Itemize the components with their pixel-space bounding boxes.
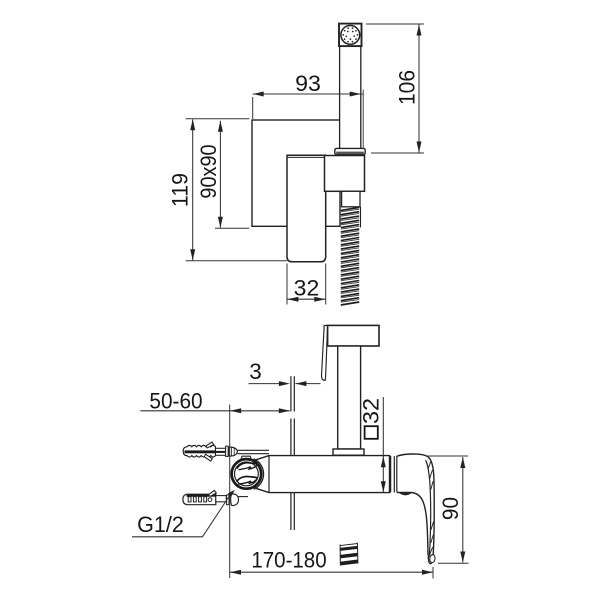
dim 106 [366, 24, 424, 153]
wall plate side view [291, 376, 294, 530]
hose break symbol [340, 543, 358, 566]
svg-text:50-60: 50-60 [149, 389, 202, 414]
inlet pipe stubs [238, 450, 270, 496]
svg-text:G1/2: G1/2 [137, 512, 184, 537]
dim 93 [253, 71, 364, 148]
holder flange front [335, 148, 365, 154]
svg-text:32: 32 [358, 398, 383, 424]
spray holes [342, 27, 358, 42]
G1/2 label [132, 490, 235, 537]
shower handle front [340, 40, 361, 150]
dim 119 [168, 119, 288, 261]
dim 50-60 [140, 389, 289, 414]
svg-text:106: 106 [395, 70, 420, 105]
shower hose coil [341, 207, 359, 305]
spray face circle [341, 26, 360, 45]
sprayer head side [328, 325, 379, 346]
dim 3 [249, 359, 321, 386]
mixer body side [256, 456, 390, 493]
wall anchor top [183, 442, 225, 461]
svg-text:119: 119 [168, 173, 193, 207]
outlet bump [399, 493, 412, 495]
body end cap [390, 456, 394, 493]
svg-text:90: 90 [438, 497, 463, 520]
svg-text:32: 32 [294, 276, 320, 301]
screw bottom [227, 494, 239, 506]
cartridge circle [232, 459, 264, 489]
wall line extension [229, 405, 231, 579]
spray head square [339, 24, 362, 46]
dim 90x90 [196, 121, 250, 228]
dim 32 front [287, 264, 326, 305]
sprayer handle side [338, 346, 361, 449]
svg-text:93: 93 [295, 71, 321, 96]
sprayer nozzle side [321, 325, 327, 380]
svg-text:90x90: 90x90 [196, 144, 221, 198]
dim 90 [428, 456, 469, 563]
holder block front [325, 156, 365, 192]
cartridge tab [241, 456, 251, 459]
mixer lever front [287, 155, 326, 262]
hose connector [342, 191, 361, 227]
lever side [397, 454, 436, 564]
wall anchor bottom [183, 490, 226, 504]
holder flange side [333, 449, 364, 455]
svg-text:3: 3 [249, 359, 262, 384]
screw top [226, 446, 238, 456]
wall plate front view [252, 120, 340, 226]
dim 170-180 [230, 548, 433, 579]
dim square 32 [358, 397, 385, 492]
svg-text:170-180: 170-180 [251, 548, 326, 573]
